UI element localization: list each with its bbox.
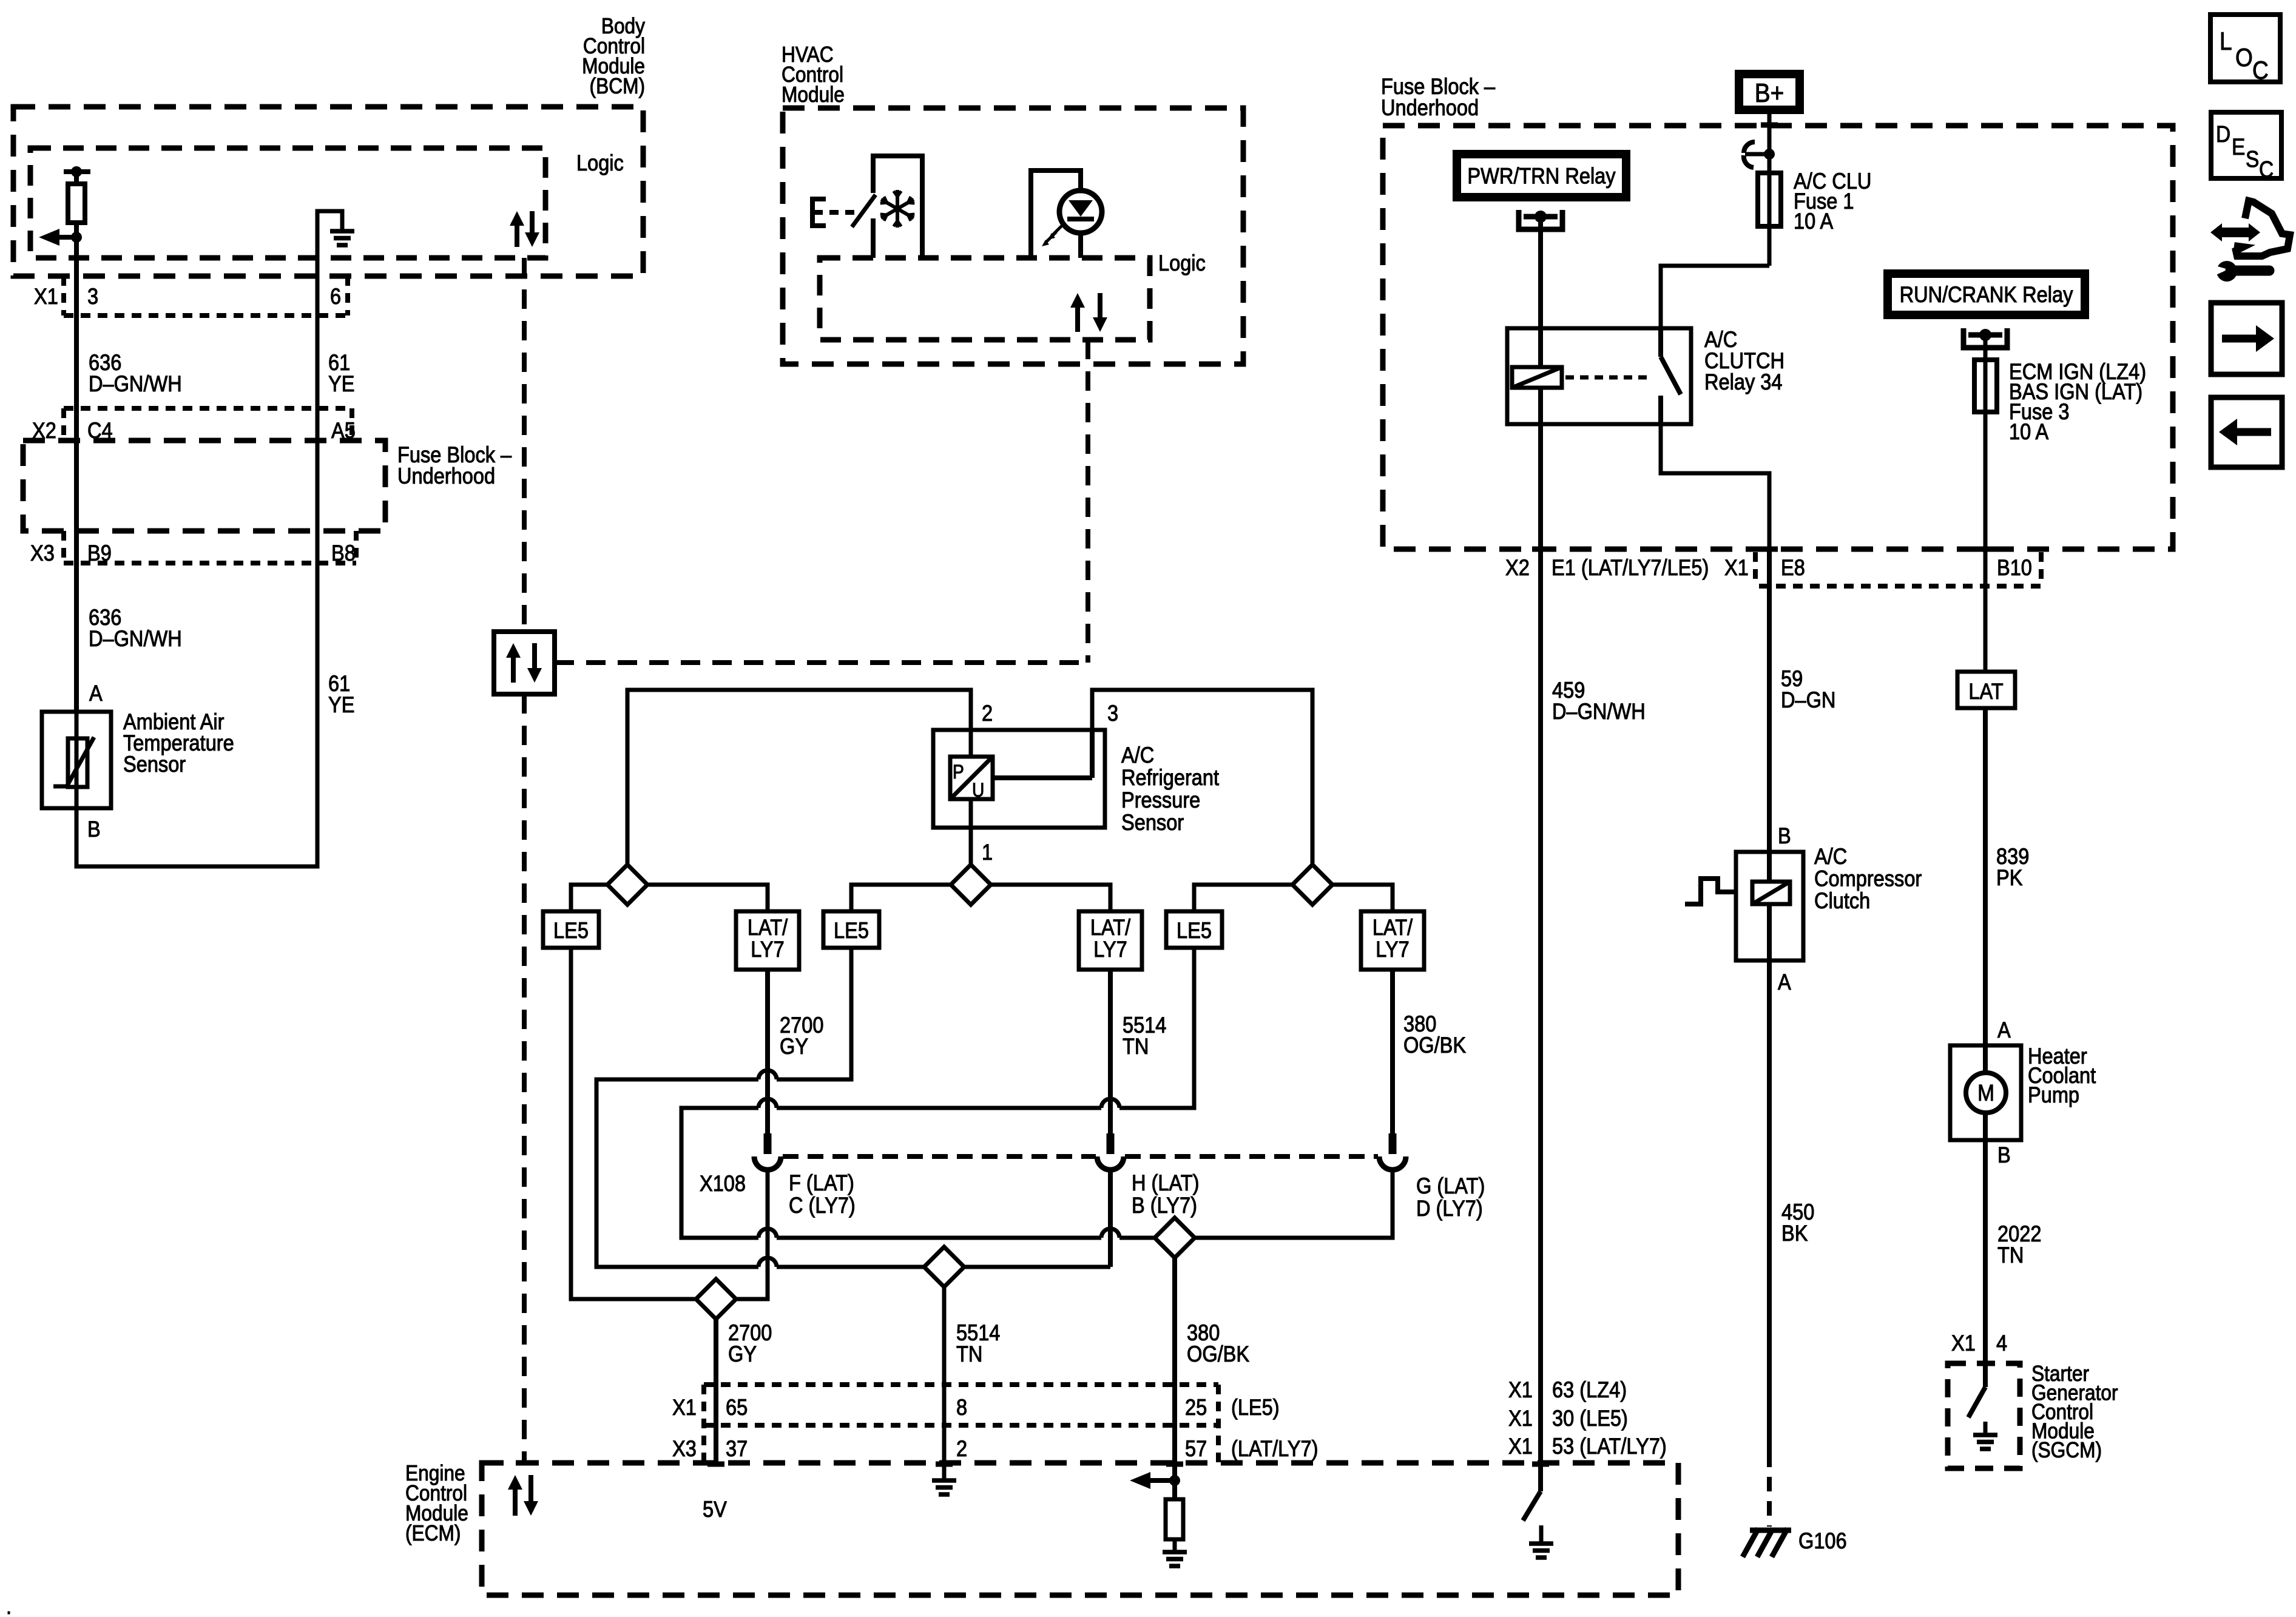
pin 2 label xyxy=(982,701,993,726)
svg-text:D–GN/WH: D–GN/WH xyxy=(89,371,182,396)
svg-text:Module: Module xyxy=(782,83,845,107)
switch to ground inside ECM (459 control) xyxy=(1523,1464,1541,1521)
wire: 380 OG/BK to ECM pins 25/57 xyxy=(1172,1258,1177,1499)
svg-text:B: B xyxy=(87,817,101,842)
label G106 xyxy=(1798,1528,1847,1553)
wire label 459 D-GN/WH xyxy=(1552,678,1646,724)
connector X2 row (pins C4, A5) xyxy=(64,408,352,441)
relay label box: PWR/TRN Relay xyxy=(1457,154,1626,197)
wire label 5514 TN (upper) xyxy=(1123,1013,1166,1059)
svg-text:E: E xyxy=(2232,134,2245,160)
wire label 839 PK xyxy=(1996,844,2029,890)
svg-text:X108: X108 xyxy=(700,1171,746,1196)
wire: ATS pin B loop to BCM pin 6 (61 YE) xyxy=(76,276,317,866)
wire: fuse 1 to A/C clutch relay switch xyxy=(1661,266,1769,328)
svg-text:LE5: LE5 xyxy=(1177,918,1212,943)
svg-text:B10: B10 xyxy=(1997,555,2032,580)
connector label X1 4 (SGCM) xyxy=(1951,1331,2007,1355)
tag (LE5) for ECM X1 row xyxy=(1231,1395,1280,1420)
svg-text:B+: B+ xyxy=(1755,78,1784,108)
svg-text:.: . xyxy=(6,1594,12,1617)
wire label 5514 TN (lower) xyxy=(956,1320,1000,1366)
tag (LAT/LY7) for ECM X3 row xyxy=(1231,1436,1319,1461)
svg-text:30 (LE5): 30 (LE5) xyxy=(1552,1406,1628,1431)
HVAC Logic box xyxy=(820,258,1150,340)
wire: diamond 1 branches to LE5 and LAT/LY7 tags xyxy=(571,885,768,911)
wire label 2700 GY (upper) xyxy=(780,1013,823,1059)
svg-text:4: 4 xyxy=(1996,1331,2007,1355)
bus arrows inside ECM xyxy=(508,1475,538,1516)
ground symbol inside SGCM xyxy=(1973,1422,1997,1449)
fuse: ECM IGN Fuse 3 10 A xyxy=(1974,360,1997,412)
pin A label (heater coolant pump) xyxy=(1997,1018,2011,1042)
label 5V (ECM supply) xyxy=(703,1497,728,1522)
svg-text:RUN/CRANK Relay: RUN/CRANK Relay xyxy=(1900,282,2073,307)
pin 37 label xyxy=(726,1436,748,1461)
component: Heater Coolant Pump (motor) xyxy=(1950,1045,2021,1140)
svg-text:D: D xyxy=(2216,121,2230,147)
wire: diamond 3 branches xyxy=(1194,885,1393,911)
label: A/C Refrigerant Pressure Sensor xyxy=(1121,743,1219,835)
wire: sensor pin 2 to junction diamond (upper rail) xyxy=(627,690,971,865)
wire: LE5 (3) branch routed left and down xyxy=(681,948,1194,1238)
junction diamond (sensor low reference) xyxy=(1292,865,1332,905)
BCM Logic box xyxy=(30,148,545,258)
icon: next arrow box xyxy=(2211,303,2282,374)
pin 65 label xyxy=(726,1395,748,1420)
svg-text:8: 8 xyxy=(956,1395,967,1420)
wire: dashed segment to G106 xyxy=(1767,1453,1772,1527)
icon: LOC box xyxy=(2210,15,2280,85)
bus junction box with arrows xyxy=(494,632,555,694)
pin 8 label xyxy=(956,1395,967,1420)
svg-text:X1: X1 xyxy=(1508,1377,1533,1402)
icon: engine with wrench xyxy=(2210,201,2290,282)
wire label 450 BK xyxy=(1781,1200,1814,1246)
ground symbol inside ECM (459) xyxy=(1529,1525,1553,1558)
label: A/C Compressor Clutch xyxy=(1814,844,1922,913)
svg-text:57: 57 xyxy=(1185,1436,1207,1461)
pin B label (ATS) xyxy=(87,817,101,842)
svg-text:63 (LZ4): 63 (LZ4) xyxy=(1552,1377,1627,1402)
svg-text:E8: E8 xyxy=(1781,555,1805,580)
wire: PWR/TRN relay coil feed down through A/C clutch relay coil xyxy=(1538,217,1543,549)
pin 6 label xyxy=(330,284,341,309)
label: Fuse Block - Underhood (right) xyxy=(1381,74,1496,120)
svg-text:OG/BK: OG/BK xyxy=(1403,1033,1466,1058)
pin A label (compressor clutch) xyxy=(1778,970,1791,994)
wire label 2022 TN xyxy=(1997,1221,2041,1268)
svg-text:LE5: LE5 xyxy=(553,918,589,943)
svg-text:TN: TN xyxy=(1123,1034,1149,1059)
module box: Engine Control Module (ECM) xyxy=(482,1463,1678,1595)
wire: bus branch vertical to HVAC logic (dashed) xyxy=(1086,340,1090,663)
ground symbol inside ECM (below resistor) xyxy=(1163,1552,1187,1566)
pin A label (ATS) xyxy=(89,681,103,706)
svg-text:Sensor: Sensor xyxy=(1121,810,1184,835)
svg-text:X1: X1 xyxy=(34,284,58,309)
svg-text:YE: YE xyxy=(328,371,354,396)
wire: diamond 2 branches xyxy=(851,885,1110,911)
pin label X1 xyxy=(34,284,58,309)
svg-text:G106: G106 xyxy=(1798,1528,1847,1553)
svg-text:B9: B9 xyxy=(87,541,112,565)
svg-text:X3: X3 xyxy=(30,541,55,565)
svg-text:Pressure: Pressure xyxy=(1121,788,1200,812)
svg-text:10 A: 10 A xyxy=(2009,419,2049,444)
wire label 636 D-GN/WH (upper) xyxy=(89,350,182,396)
svg-text:D–GN/WH: D–GN/WH xyxy=(89,626,182,651)
merge diamond (2700 GY to ECM 5V) xyxy=(696,1279,736,1319)
engine tag LE5 (2) xyxy=(823,911,879,948)
RUN/CRANK relay terminal bracket xyxy=(1963,328,2007,348)
connector row dashes at E8/B10 xyxy=(1755,552,2041,586)
svg-text:H (LAT): H (LAT) xyxy=(1132,1170,1200,1195)
bus arrows inside BCM logic xyxy=(510,211,539,247)
svg-text:YE: YE xyxy=(328,692,354,717)
wire: 2700 GY to ECM pins 65/37 xyxy=(714,1319,718,1464)
wire: serial data bus from BCM logic down to ECM (dashed) xyxy=(522,258,527,632)
module box: Fuse Block - Underhood (right) xyxy=(1383,126,2173,549)
pin 3 label xyxy=(1107,701,1118,726)
wire: LAT/LY7 380 OG/BK down to connector X108 pin G/D xyxy=(1390,970,1395,1133)
svg-text:Underhood: Underhood xyxy=(397,464,495,488)
ground G106 (chassis) xyxy=(1743,1528,1791,1557)
svg-text:3: 3 xyxy=(87,284,98,309)
fuse: A/C CLU Fuse 1 10 A xyxy=(1758,173,1781,226)
label: Engine Control Module (ECM) xyxy=(405,1461,468,1545)
engine tag LE5 (3) xyxy=(1166,911,1222,948)
icon: previous arrow box xyxy=(2211,397,2282,467)
wire: B+ into fuse block through Fuse 1 xyxy=(1768,110,1772,266)
power feed B+ xyxy=(1739,74,1800,110)
connector X3 row (pins B9, B8) xyxy=(64,531,356,563)
svg-text:(LAT/LY7): (LAT/LY7) xyxy=(1231,1436,1319,1461)
wire crossing ticks at module box edges xyxy=(516,125,1994,1464)
pin C4 label xyxy=(87,418,113,443)
svg-text:B: B xyxy=(1997,1143,2011,1167)
svg-text:Logic: Logic xyxy=(1158,251,1206,275)
wire: RUN/CRANK to Fuse 3 and through fuse to B10 xyxy=(1984,335,1988,672)
pin 57 label xyxy=(1185,1436,1207,1461)
switch to ground inside SGCM xyxy=(1968,1387,1985,1417)
svg-text:Sensor: Sensor xyxy=(123,752,186,777)
svg-text:Underhood: Underhood xyxy=(1381,95,1479,120)
resistor inside ECM (380 OG/BK pull) xyxy=(1166,1480,1183,1552)
module box: Fuse Block - Underhood (left) xyxy=(23,441,385,531)
PWR/TRN relay coil terminal bracket xyxy=(1519,210,1562,229)
svg-text:PK: PK xyxy=(1996,865,2022,890)
svg-text:B: B xyxy=(1778,823,1791,848)
label X108 xyxy=(700,1171,746,1196)
svg-text:3: 3 xyxy=(1107,701,1118,726)
connector X108 pin G/D xyxy=(1379,1133,1406,1170)
svg-text:5V: 5V xyxy=(703,1497,728,1522)
svg-text:X1: X1 xyxy=(1508,1434,1533,1459)
merge diamond (380 OG/BK to ECM signal) xyxy=(1155,1218,1195,1258)
wire: A/C clutch relay output to E8 xyxy=(1661,424,1769,549)
svg-text:Logic: Logic xyxy=(576,150,624,175)
battery feed clip with junction dot xyxy=(1744,142,1775,167)
pin A5 label xyxy=(331,418,356,443)
svg-text:A/C: A/C xyxy=(1814,844,1847,869)
svg-text:X3: X3 xyxy=(672,1436,697,1461)
svg-text:C (LY7): C (LY7) xyxy=(789,1193,856,1218)
wire: E1 down to ECM (459 D-GN/WH) xyxy=(1538,549,1543,1464)
svg-text:LY7: LY7 xyxy=(751,937,785,962)
component: A/C Compressor Clutch xyxy=(1685,852,1803,960)
svg-text:2: 2 xyxy=(982,701,993,726)
svg-text:6: 6 xyxy=(330,284,341,309)
wire: below X108 G/D down and left to merge diamond xyxy=(1195,1171,1393,1238)
svg-text:10 A: 10 A xyxy=(1794,209,1834,234)
fuse block bottom connector labels X2 E1 X1 E8 B10 xyxy=(1505,555,2032,580)
svg-text:O: O xyxy=(2235,44,2253,72)
A/C indicator LED (HVAC) xyxy=(1031,170,1102,258)
label: ECM IGN (LZ4) BAS IGN (LAT) Fuse 3 10 A xyxy=(2009,359,2146,444)
module box: Body Control Module (BCM) xyxy=(13,107,643,276)
pin label H (LAT) / B (LY7) xyxy=(1132,1170,1200,1218)
wire: bus continues to ECM (dashed) xyxy=(522,694,527,1463)
pin label F (LAT) / C (LY7) xyxy=(789,1170,856,1218)
ground symbol inside BCM logic xyxy=(317,211,354,276)
wire: LAT/LY7 5514 TN down to connector X108 pin H/B xyxy=(1108,970,1113,1133)
svg-text:D (LY7): D (LY7) xyxy=(1416,1196,1483,1221)
svg-text:D–GN/WH: D–GN/WH xyxy=(1552,699,1646,724)
wire: sensor pin 1 down to diamond xyxy=(969,828,973,865)
wire: LAT tag to heater coolant pump (839 PK) xyxy=(1983,708,1988,1045)
engine tag LAT/LY7 (1) xyxy=(736,911,799,970)
signal arrow (BCM input) xyxy=(39,229,82,246)
junction diamond (sensor signal) xyxy=(951,865,991,905)
svg-text:GY: GY xyxy=(780,1034,808,1059)
svg-text:BK: BK xyxy=(1781,1221,1808,1246)
label: Heater Coolant Pump xyxy=(2028,1044,2096,1107)
svg-text:Refrigerant: Refrigerant xyxy=(1121,765,1219,790)
svg-text:OG/BK: OG/BK xyxy=(1187,1342,1249,1366)
pin label X2 xyxy=(32,418,56,443)
svg-text:B (LY7): B (LY7) xyxy=(1132,1193,1197,1218)
svg-text:C: C xyxy=(2252,56,2269,85)
label: HVAC Control Module xyxy=(782,42,845,107)
relay: A/C CLUTCH Relay 34 xyxy=(1507,328,1691,424)
connector X1 row of BCM (pins 3 and 6) xyxy=(64,276,348,316)
svg-text:D–GN: D–GN xyxy=(1781,687,1835,712)
wire: compressor clutch to ground G106 (450 BK) xyxy=(1767,960,1772,1453)
engine tag LAT/LY7 (3) xyxy=(1361,911,1424,970)
component: A/C Refrigerant Pressure Sensor xyxy=(933,730,1105,828)
svg-text:Compressor: Compressor xyxy=(1814,866,1922,891)
merge diamond (5514 TN to ECM low ref) xyxy=(924,1247,964,1287)
wire label 59 D-GN xyxy=(1781,666,1835,712)
svg-text:X1: X1 xyxy=(672,1395,697,1420)
label: Body Control Module (BCM) xyxy=(582,14,645,98)
pin label X1 (ECM) xyxy=(672,1395,697,1420)
pin B label (compressor clutch) xyxy=(1778,823,1791,848)
svg-text:LAT: LAT xyxy=(1968,679,2003,704)
wire: E8 down to A/C compressor clutch (59 D-GN) xyxy=(1767,549,1772,852)
svg-text:(BCM): (BCM) xyxy=(590,74,645,98)
engine tag LAT (B10 feed) xyxy=(1957,672,2015,708)
pin 2 label (ECM) xyxy=(956,1436,967,1461)
wire: row into merge diamond 2 from H/B pin xyxy=(964,1265,1110,1269)
label: Starter Generator Control Module (SGCM) xyxy=(2031,1362,2118,1462)
svg-text:(LE5): (LE5) xyxy=(1231,1395,1280,1420)
wire label 636 D-GN/WH (lower) xyxy=(89,605,182,651)
svg-text:A: A xyxy=(1997,1018,2011,1042)
svg-text:X2: X2 xyxy=(1505,555,1530,580)
module box: HVAC Control Module xyxy=(783,108,1243,364)
snowflake icon xyxy=(880,190,915,228)
svg-text:B8: B8 xyxy=(331,541,356,565)
svg-text:A/C: A/C xyxy=(1121,743,1154,768)
svg-text:53 (LAT/LY7): 53 (LAT/LY7) xyxy=(1552,1434,1667,1459)
svg-text:Pump: Pump xyxy=(2028,1082,2079,1107)
svg-text:GY: GY xyxy=(728,1342,757,1366)
label: Logic (HVAC) xyxy=(1158,251,1206,275)
A/C request switch with snowflake (HVAC) xyxy=(812,156,922,258)
label: A/C CLUTCH Relay 34 xyxy=(1704,327,1784,394)
svg-text:LY7: LY7 xyxy=(1093,937,1127,962)
ECM connector rows X1/X3 xyxy=(704,1385,1218,1464)
svg-text:Clutch: Clutch xyxy=(1814,888,1870,913)
label: A/C CLU Fuse 1 10 A xyxy=(1794,169,1871,234)
svg-text:L: L xyxy=(2220,27,2232,56)
svg-text:S: S xyxy=(2246,146,2259,172)
page artifact period xyxy=(6,1594,12,1617)
svg-text:M: M xyxy=(1977,1080,1994,1106)
ground symbol inside ECM (5514 TN low reference) xyxy=(932,1480,956,1494)
wire label 61 YE (upper) xyxy=(328,350,354,396)
pin B9 label xyxy=(87,541,112,565)
pin B8 label xyxy=(331,541,356,565)
svg-text:PWR/TRN Relay: PWR/TRN Relay xyxy=(1467,164,1616,189)
svg-text:X1: X1 xyxy=(1508,1406,1533,1431)
signal arrow and dot (380 OG/BK input) xyxy=(1130,1472,1180,1489)
engine tag LE5 (1) xyxy=(543,911,599,948)
icon: DESC box xyxy=(2211,112,2281,182)
svg-text:TN: TN xyxy=(956,1342,982,1366)
svg-text:C: C xyxy=(2259,157,2274,182)
svg-text:A: A xyxy=(1778,970,1791,994)
pin 1 label xyxy=(982,840,993,865)
wire label 2700 GY (lower) xyxy=(728,1320,772,1366)
connector X108 pin H/B xyxy=(1097,1133,1124,1170)
svg-text:2: 2 xyxy=(956,1436,967,1461)
svg-text:(ECM): (ECM) xyxy=(405,1521,461,1545)
wire: 5514 TN to ECM pins 8/2 xyxy=(942,1287,947,1480)
wire label 380 OG/BK (upper) xyxy=(1403,1011,1466,1058)
wire: sensor pin 3 to junction diamond (upper rail right) xyxy=(1092,690,1312,865)
pin label X3 (ECM) xyxy=(672,1436,697,1461)
svg-text:65: 65 xyxy=(726,1395,748,1420)
wire label 380 OG/BK (lower) xyxy=(1187,1320,1249,1366)
svg-text:X1: X1 xyxy=(1724,555,1749,580)
label: Logic (BCM) xyxy=(576,150,624,175)
resistor (BCM ambient sensor pull-up) xyxy=(64,166,90,237)
wire: LAT/LY7 2700 GY down to connector X108 pin F/C xyxy=(765,970,770,1133)
svg-text:E1 (LAT/LY7/LE5): E1 (LAT/LY7/LE5) xyxy=(1551,555,1709,580)
wire: BCM pin 3 to Ambient Air Temperature Sensor pin A (636 D-GN/WH) xyxy=(74,237,79,712)
component: Ambient Air Temperature Sensor xyxy=(42,712,111,808)
pin label X3 xyxy=(30,541,55,565)
wire: below X108 H/B down to row xyxy=(1108,1171,1113,1267)
junction diamond (sensor 5V supply) xyxy=(607,865,647,905)
wire: below X108 F/C down and left to merge diamond xyxy=(735,1171,768,1299)
pin 25 label xyxy=(1185,1395,1207,1420)
relay label box: RUN/CRANK Relay xyxy=(1888,274,2085,315)
svg-text:Relay 34: Relay 34 xyxy=(1704,370,1782,394)
pin B label (heater coolant pump) xyxy=(1997,1143,2011,1167)
svg-text:F (LAT): F (LAT) xyxy=(789,1170,854,1195)
connector X108 dashed line xyxy=(783,1154,1378,1159)
pin 3 label xyxy=(87,284,98,309)
svg-text:37: 37 xyxy=(726,1436,748,1461)
wire label 61 YE (lower) xyxy=(328,671,354,717)
svg-text:P: P xyxy=(953,761,964,783)
svg-text:LE5: LE5 xyxy=(834,918,869,943)
svg-text:A: A xyxy=(89,681,103,706)
svg-text:U: U xyxy=(972,780,984,801)
svg-text:(SGCM): (SGCM) xyxy=(2031,1438,2102,1462)
module box: Starter Generator Control Module (SGCM) xyxy=(1948,1363,2020,1468)
wire: LE5 (1) branch down to merge diamond row xyxy=(571,948,697,1299)
svg-text:G (LAT): G (LAT) xyxy=(1416,1173,1485,1198)
svg-text:1: 1 xyxy=(982,840,993,865)
wire: pump to SGCM (2022 TN) xyxy=(1983,1140,1988,1387)
wire: bus branch to HVAC control module (dashed) xyxy=(555,660,1088,665)
bus arrows inside HVAC logic xyxy=(1070,293,1107,332)
wire: LE5 (2) branch routed left and down xyxy=(596,948,925,1267)
svg-text:LY7: LY7 xyxy=(1376,937,1410,962)
svg-text:X1: X1 xyxy=(1951,1331,1976,1355)
svg-text:TN: TN xyxy=(1997,1243,2024,1268)
label: Ambient Air Temperature Sensor xyxy=(123,709,234,777)
label: Fuse Block - Underhood (left) xyxy=(397,442,512,488)
svg-text:25: 25 xyxy=(1185,1395,1207,1420)
ECM pin labels X1 63/30/53 xyxy=(1508,1377,1667,1459)
pin label G (LAT) / D (LY7) xyxy=(1416,1173,1485,1221)
engine tag LAT/LY7 (2) xyxy=(1079,911,1142,970)
connector X108 pin F/C xyxy=(754,1133,781,1170)
